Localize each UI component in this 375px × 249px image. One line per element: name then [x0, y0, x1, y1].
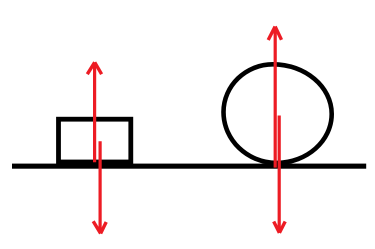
box (block resting on surface)	[59, 119, 131, 162]
circle (ball resting on surface)	[224, 64, 332, 163]
ground line	[12, 164, 366, 169]
arrow up through box (normal force)	[87, 62, 101, 162]
arrow down through box (weight)	[93, 141, 106, 233]
arrow up through circle (normal force)	[268, 27, 281, 168]
arrow down through circle (weight)	[274, 116, 286, 233]
